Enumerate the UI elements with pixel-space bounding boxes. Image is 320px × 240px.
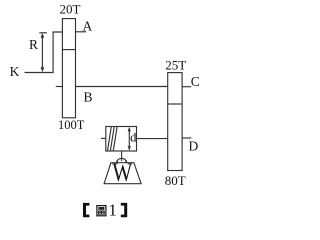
svg-text:1: 1 [108, 201, 117, 220]
weight hook arc [117, 158, 126, 162]
caption character tu (figure) [97, 206, 106, 216]
shaft B left stub [56, 86, 63, 88]
svg-text:C: C [191, 74, 200, 89]
gear divider 20T/100T [62, 49, 75, 51]
svg-text:D: D [189, 139, 199, 154]
shaft B to 25T gear [76, 86, 168, 88]
hook curl left [116, 160, 118, 162]
weight W trapezoid [104, 163, 141, 184]
drum left shaft stub [101, 137, 106, 139]
gear 20T+100T column outline [62, 19, 75, 118]
rope from drum [121, 151, 123, 161]
R arrow head bottom [41, 67, 45, 72]
gear divider 25T/80T [168, 103, 182, 105]
svg-text:25T: 25T [165, 57, 186, 72]
drum outline [106, 127, 137, 152]
svg-text:W: W [112, 158, 132, 187]
drum to 80T gear shaft [137, 138, 168, 140]
svg-text:d: d [130, 131, 137, 145]
shaft A line [76, 31, 87, 33]
svg-text:80T: 80T [165, 173, 186, 188]
drum hatch line 2 [110, 127, 114, 151]
svg-text:20T: 20T [60, 1, 81, 16]
R dimension arrow line [41, 35, 43, 71]
d arrow head top [128, 127, 131, 131]
svg-text:B: B [84, 89, 93, 104]
hook curl right [125, 160, 127, 162]
svg-text:K: K [10, 64, 20, 79]
R dimension top tick [39, 32, 47, 34]
shaft C line [182, 86, 191, 88]
shaft D line [182, 137, 191, 139]
d dimension arrow line [128, 128, 130, 150]
svg-text:R: R [29, 37, 38, 52]
caption left bracket [83, 203, 89, 217]
svg-text:A: A [83, 19, 93, 34]
drum hatch line 3 [113, 127, 117, 151]
drum hatch line 1 [108, 127, 112, 151]
svg-text:100T: 100T [58, 118, 85, 132]
crank arm K [25, 32, 63, 73]
d arrow head bottom [128, 146, 131, 151]
R arrow head top [41, 33, 45, 38]
gear 25T+80T column outline [168, 73, 182, 171]
caption right bracket [121, 203, 127, 217]
